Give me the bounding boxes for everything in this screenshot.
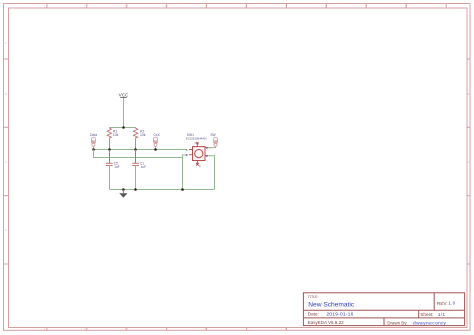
svg-text:D: D	[206, 146, 208, 150]
junction ground	[122, 188, 125, 191]
svg-text:C: C	[468, 160, 470, 164]
svg-text:SW: SW	[210, 133, 216, 137]
wire Data pin lead	[93, 146, 95, 149]
svg-text:REV:: REV:	[437, 301, 448, 306]
svg-text:EC11E18244AN: EC11E18244AN	[186, 136, 207, 140]
wire CLK pin lead	[155, 146, 157, 149]
svg-text:2019-01-16: 2019-01-16	[327, 312, 354, 318]
pin SW	[214, 138, 218, 147]
svg-text:D: D	[5, 228, 7, 232]
svg-text:C: C	[199, 164, 201, 168]
junction Data	[92, 148, 95, 151]
no-connect cross bottom pin C	[196, 163, 199, 166]
resistor R1	[107, 128, 111, 150]
junction B branch bottom	[181, 188, 184, 191]
pin CLK	[154, 138, 158, 147]
svg-text:C: C	[5, 160, 7, 164]
junction CLK	[154, 148, 157, 151]
svg-text:Drawn By:: Drawn By:	[387, 320, 407, 325]
wire encoder E to ground bus	[208, 156, 214, 190]
svg-text:10k: 10k	[140, 133, 146, 137]
junction C1 bottom	[134, 188, 137, 191]
wire encoder B branch	[183, 155, 188, 190]
capacitor C1	[132, 150, 139, 190]
svg-text:1uF: 1uF	[141, 165, 147, 169]
svg-text:1uF: 1uF	[114, 165, 120, 169]
svg-text:dwaynecorey: dwaynecorey	[413, 320, 446, 326]
svg-text:B: B	[186, 153, 188, 157]
no-connect cross top pin	[196, 142, 198, 144]
svg-text:Sheet:: Sheet:	[420, 312, 433, 317]
svg-text:TITLE:: TITLE:	[308, 295, 319, 299]
junction VCC node	[122, 126, 125, 129]
rotary encoder SW1 EC11E18244AN	[186, 142, 209, 169]
resistor R2	[133, 128, 137, 150]
svg-text:B: B	[5, 92, 7, 96]
wire Data jog down	[94, 150, 183, 158]
svg-text:A: A	[5, 41, 7, 45]
svg-text:1/1: 1/1	[438, 312, 446, 317]
wire ground bus	[110, 189, 215, 191]
svg-text:CLK: CLK	[153, 133, 160, 137]
svg-text:Data: Data	[90, 133, 97, 137]
pin Data	[91, 138, 95, 147]
svg-text:10k: 10k	[113, 133, 119, 137]
wire row net Data/R1/R2/CLK/A	[94, 149, 188, 151]
wire SW to encoder D	[208, 146, 215, 147]
junction R1 bottom	[108, 148, 111, 151]
svg-text:New Schematic: New Schematic	[308, 301, 355, 308]
svg-text:VCC: VCC	[119, 93, 129, 98]
capacitor C5	[106, 150, 113, 190]
svg-text:EasyEDA V5.9.22: EasyEDA V5.9.22	[308, 320, 344, 325]
svg-text:E: E	[206, 154, 208, 158]
svg-text:B: B	[468, 92, 470, 96]
title block	[303, 293, 464, 326]
svg-text:1.0: 1.0	[448, 301, 455, 306]
power flag VCC	[119, 93, 129, 98]
svg-text:A: A	[186, 148, 188, 152]
wire VCC vertical	[123, 98, 125, 128]
ground	[119, 190, 127, 198]
junction R2 bottom	[134, 148, 137, 151]
svg-text:Date:: Date:	[308, 312, 319, 317]
wire resistor tops	[110, 127, 136, 129]
